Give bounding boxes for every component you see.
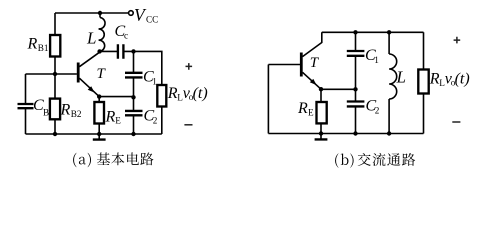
svg-text:B: B (43, 108, 49, 118)
svg-text:c: c (124, 31, 128, 41)
svg-text:L: L (396, 67, 406, 86)
svg-text:L: L (86, 29, 96, 48)
svg-text:B1: B1 (38, 43, 49, 53)
svg-text:(t): (t) (193, 85, 208, 102)
svg-text:R: R (27, 36, 38, 53)
svg-text:2: 2 (153, 115, 158, 125)
svg-text:CC: CC (146, 15, 158, 25)
svg-text:R: R (429, 71, 440, 88)
svg-text:1: 1 (374, 55, 379, 65)
svg-text:(t): (t) (455, 71, 470, 88)
svg-text:E: E (115, 116, 121, 126)
svg-text:E: E (308, 108, 314, 118)
svg-text:1: 1 (152, 77, 157, 87)
svg-text:R: R (105, 108, 116, 125)
svg-text:R: R (167, 85, 178, 102)
svg-text:R: R (297, 100, 308, 117)
svg-text:R: R (60, 102, 71, 119)
svg-text:2: 2 (375, 105, 380, 115)
svg-text:B2: B2 (71, 109, 82, 119)
